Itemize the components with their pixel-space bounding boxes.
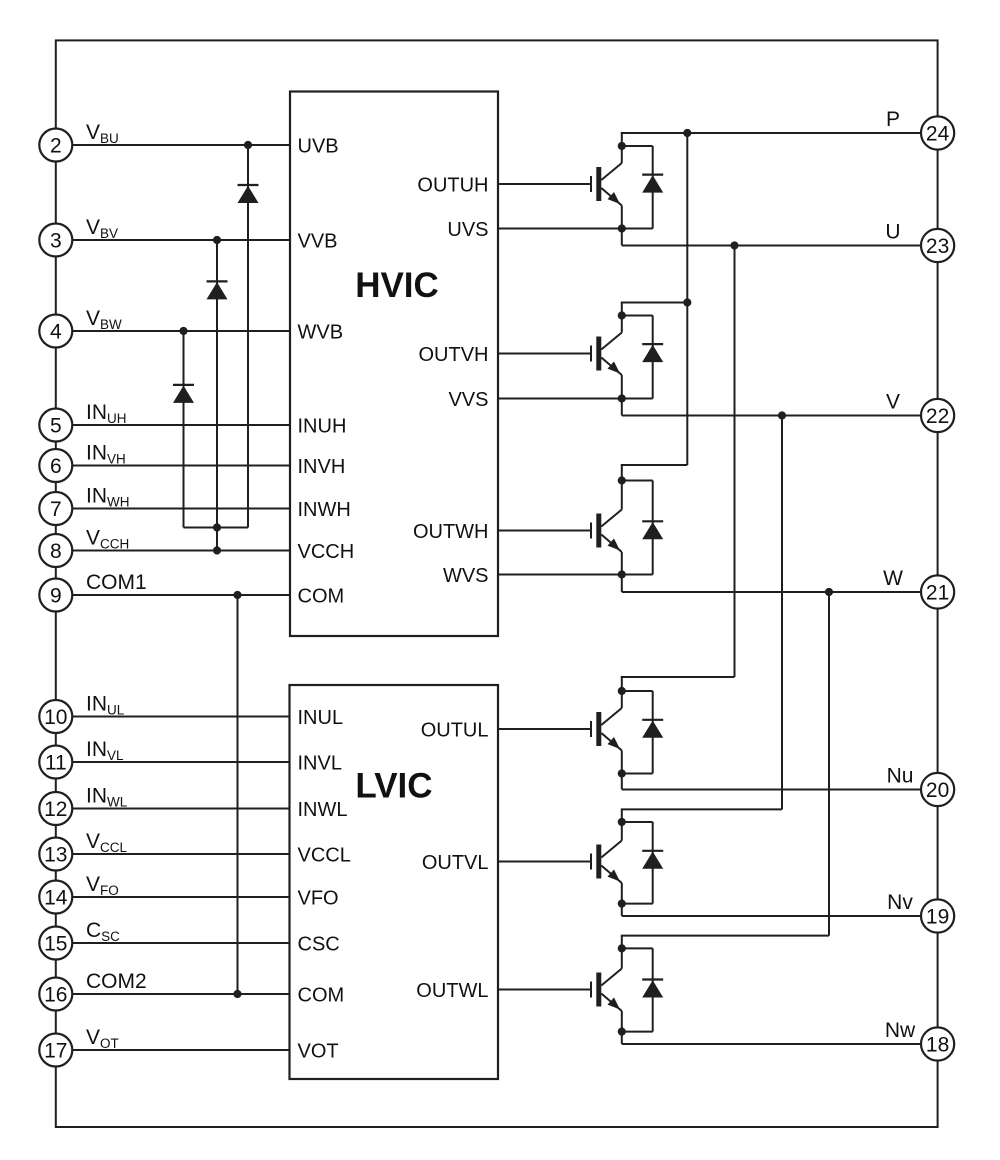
junction COM2: [233, 990, 241, 998]
wire W feed vertical: [828, 592, 830, 936]
svg-text:WVB: WVB: [298, 322, 344, 344]
junction Q5 (low-side V) collector: [618, 818, 626, 826]
svg-text:COM: COM: [298, 586, 345, 608]
wire bootstrap anode bus: [184, 527, 249, 529]
wire VBW bootstrap vertical: [183, 331, 185, 528]
wire pin11 to IC: [72, 761, 290, 763]
wire OUTVL: [498, 861, 591, 863]
pin 8 circle: [39, 534, 72, 567]
svg-text:13: 13: [44, 843, 67, 866]
op-amp U1 HVIC block: [290, 92, 498, 637]
wire OUTUH: [498, 183, 591, 185]
pin 19 circle: [921, 899, 954, 932]
bootstrap diode D1: [238, 184, 259, 186]
wire pin17 to IC: [72, 1049, 290, 1051]
transistor Q6 (low-side W): [591, 936, 829, 1044]
wire OUTWH: [498, 530, 591, 532]
junction Q1 (high-side U) emitter: [618, 224, 626, 232]
junction Q2 (high-side V) emitter: [618, 394, 626, 402]
junction W rail: [825, 588, 833, 596]
svg-text:UVB: UVB: [298, 136, 339, 158]
pin 14 circle: [39, 881, 72, 914]
wire COM bus vertical: [237, 595, 239, 994]
wire node W rail: [622, 591, 921, 593]
svg-text:17: 17: [44, 1039, 67, 1062]
svg-text:OUTVL: OUTVL: [422, 852, 489, 874]
svg-text:23: 23: [926, 235, 949, 258]
wire V feed vertical: [781, 416, 783, 810]
svg-text:LVIC: LVIC: [355, 767, 432, 806]
svg-text:22: 22: [926, 405, 949, 428]
svg-text:19: 19: [926, 905, 949, 928]
svg-text:15: 15: [44, 932, 67, 955]
wire pin2 to IC: [72, 144, 290, 146]
junction VCCH: [213, 546, 221, 554]
freewheel diode D7: [622, 691, 663, 774]
wire P feed vertical: [686, 133, 688, 465]
wire OUTWL: [498, 989, 591, 991]
svg-text:OUTVH: OUTVH: [419, 344, 489, 366]
junction V rail: [778, 411, 786, 419]
pin 5 circle: [39, 409, 72, 442]
pin 15 circle: [39, 927, 72, 960]
junction Q1 (high-side U) collector: [618, 142, 626, 150]
svg-text:OUTWH: OUTWH: [413, 521, 489, 543]
svg-text:3: 3: [50, 229, 62, 252]
freewheel diode D5: [622, 316, 663, 399]
pin 11 circle: [39, 746, 72, 779]
wire VBV bootstrap vertical: [216, 240, 218, 551]
wire node Nu rail: [622, 789, 921, 791]
junction V-high collector: [683, 298, 691, 306]
pin 2 circle: [39, 129, 72, 162]
svg-text:VCCH: VCCH: [298, 541, 355, 563]
svg-text:21: 21: [926, 581, 949, 604]
wire pin7 to IC: [72, 508, 290, 510]
svg-text:6: 6: [50, 455, 62, 478]
svg-text:VVS: VVS: [448, 389, 488, 411]
svg-text:WVS: WVS: [443, 565, 489, 587]
pin 12 circle: [39, 792, 72, 825]
pin 16 circle: [39, 978, 72, 1011]
svg-text:7: 7: [50, 498, 62, 521]
svg-text:INUL: INUL: [298, 707, 344, 729]
bootstrap diode D2: [207, 280, 228, 282]
pin 9 circle: [39, 579, 72, 612]
freewheel diode D6: [622, 481, 663, 575]
svg-text:12: 12: [44, 798, 67, 821]
svg-text:5: 5: [50, 414, 62, 437]
svg-text:INVL: INVL: [298, 753, 342, 775]
pin 21 circle: [921, 575, 954, 608]
junction P rail: [683, 129, 691, 137]
junction Q6 (low-side W) collector: [618, 944, 626, 952]
svg-text:OUTUL: OUTUL: [421, 720, 489, 742]
transistor Q4 (low-side U): [591, 677, 735, 790]
junction Q4 (low-side U) emitter: [618, 769, 626, 777]
svg-text:COM1: COM1: [86, 571, 147, 594]
svg-text:CSC: CSC: [298, 934, 340, 956]
junction bootstrap bus: [213, 523, 221, 531]
pin 24 circle: [921, 116, 954, 149]
svg-text:INVH: INVH: [298, 456, 346, 478]
pin 10 circle: [39, 700, 72, 733]
svg-text:2: 2: [50, 134, 62, 157]
wire VVS: [498, 398, 622, 400]
wire UVS: [498, 228, 622, 230]
pin 7 circle: [39, 492, 72, 525]
pin 22 circle: [921, 399, 954, 432]
junction VBW: [179, 327, 187, 335]
svg-text:W: W: [883, 567, 903, 590]
wire OUTVH: [498, 353, 591, 355]
svg-text:HVIC: HVIC: [355, 266, 439, 305]
wire pin8 to IC: [72, 550, 290, 552]
svg-text:COM: COM: [298, 985, 345, 1007]
wire VBU bootstrap vertical: [247, 145, 249, 528]
svg-text:VOT: VOT: [298, 1041, 339, 1063]
svg-text:OUTWL: OUTWL: [416, 980, 488, 1002]
wire pin15 to IC: [72, 942, 290, 944]
freewheel diode D8: [622, 822, 663, 904]
svg-text:Nu: Nu: [887, 765, 914, 788]
svg-text:UVS: UVS: [447, 219, 488, 241]
pin 23 circle: [921, 229, 954, 262]
wire pin5 to IC: [72, 424, 290, 426]
wire node V rail: [622, 415, 921, 417]
svg-text:U: U: [885, 221, 900, 244]
svg-text:20: 20: [926, 779, 949, 802]
pin 17 circle: [39, 1034, 72, 1067]
wire pin14 to IC: [72, 896, 290, 898]
svg-text:VFO: VFO: [298, 888, 339, 910]
svg-text:Nw: Nw: [885, 1019, 916, 1042]
wire node Nv rail: [622, 915, 921, 917]
wire pin12 to IC: [72, 808, 290, 810]
pin 4 circle: [39, 315, 72, 348]
svg-text:16: 16: [44, 983, 67, 1006]
junction Q3 (high-side W) emitter: [618, 570, 626, 578]
svg-text:V: V: [886, 391, 900, 414]
freewheel diode D9: [622, 948, 663, 1031]
wire pin16 to IC: [72, 993, 290, 995]
wire WVS: [498, 574, 622, 576]
pin 3 circle: [39, 224, 72, 257]
svg-text:24: 24: [926, 122, 950, 145]
transistor Q5 (low-side V): [591, 809, 782, 916]
svg-text:INUH: INUH: [298, 416, 347, 438]
wire node P rail: [622, 132, 921, 134]
junction Q2 (high-side V) collector: [618, 311, 626, 319]
svg-text:INWL: INWL: [298, 799, 348, 821]
bootstrap diode D3: [173, 384, 194, 386]
pin 18 circle: [921, 1027, 954, 1060]
svg-text:18: 18: [926, 1033, 949, 1056]
svg-text:OUTUH: OUTUH: [417, 175, 488, 197]
svg-text:8: 8: [50, 540, 62, 563]
junction VBV: [213, 236, 221, 244]
svg-text:14: 14: [44, 886, 68, 909]
junction U rail: [730, 241, 738, 249]
op-amp U2 LVIC block: [290, 685, 499, 1079]
wire OUTUL: [498, 728, 591, 730]
wire node Nw rail: [622, 1043, 921, 1045]
junction COM1: [233, 591, 241, 599]
svg-text:COM2: COM2: [86, 970, 147, 993]
junction VBU: [244, 141, 252, 149]
junction Q5 (low-side V) emitter: [618, 900, 626, 908]
pin 13 circle: [39, 838, 72, 871]
wire pin10 to IC: [72, 716, 290, 718]
junction Q3 (high-side W) collector: [618, 476, 626, 484]
freewheel diode D4: [622, 146, 663, 229]
wire node U rail: [622, 245, 921, 247]
junction Q4 (low-side U) collector: [618, 687, 626, 695]
svg-text:INWH: INWH: [298, 499, 351, 521]
pin 6 circle: [39, 449, 72, 482]
wire pin6 to IC: [72, 465, 290, 467]
wire pin13 to IC: [72, 853, 290, 855]
transistor Q2 (high-side V): [591, 303, 687, 416]
wire pin9 to IC: [72, 594, 290, 596]
svg-text:9: 9: [50, 584, 62, 607]
svg-text:VCCL: VCCL: [298, 845, 351, 867]
wire pin4 to IC: [72, 330, 290, 332]
transistor Q1 (high-side U): [591, 133, 687, 246]
wire pin3 to IC: [72, 239, 290, 241]
junction Q6 (low-side W) emitter: [618, 1028, 626, 1036]
svg-text:Nv: Nv: [887, 891, 913, 914]
svg-text:10: 10: [44, 706, 67, 729]
svg-text:P: P: [886, 108, 900, 131]
wire U feed vertical: [734, 246, 736, 678]
transistor Q3 (high-side W): [591, 465, 687, 592]
pin 20 circle: [921, 773, 954, 806]
svg-text:4: 4: [50, 320, 62, 343]
svg-text:VVB: VVB: [298, 231, 338, 253]
svg-text:11: 11: [45, 751, 67, 774]
